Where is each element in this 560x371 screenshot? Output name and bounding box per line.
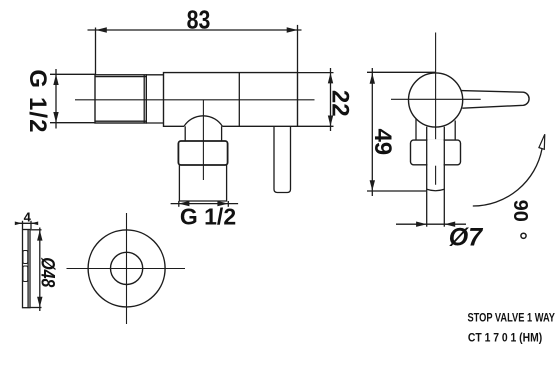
neck top edge xyxy=(146,74,163,76)
escutcheon nut xyxy=(411,140,461,165)
dimension 49 bottom extension line xyxy=(367,190,426,192)
flange clip upper xyxy=(23,251,28,264)
nut hidden area mask xyxy=(427,139,443,166)
svg-text:STOP VALVE 1 WAY: STOP VALVE 1 WAY xyxy=(467,312,555,326)
svg-text:CT 1 7 0 1 (HM): CT 1 7 0 1 (HM) xyxy=(468,332,542,345)
branch lower section xyxy=(179,165,226,201)
valve inlet threaded end body xyxy=(95,75,146,123)
svg-text:Ø48: Ø48 xyxy=(37,257,58,287)
rotation arc open arrowhead xyxy=(539,134,545,149)
dimension diameter 48 line xyxy=(39,228,41,312)
branch dome arc xyxy=(184,116,222,127)
svg-text:83: 83 xyxy=(187,5,211,35)
dimension 49 top extension line xyxy=(367,71,436,73)
thread minor line bottom xyxy=(95,120,146,122)
thread minor line top xyxy=(95,76,146,78)
G 1/2 left dim top extension line xyxy=(50,73,95,75)
right view horizontal centerline xyxy=(391,98,481,100)
svg-text:90: 90 xyxy=(509,200,531,222)
flange vertical centerline xyxy=(126,213,128,324)
dimension 4 left extension line xyxy=(22,221,24,229)
svg-text:22: 22 xyxy=(327,90,354,117)
flange front view outer circle xyxy=(88,230,165,307)
G 1/2 left dim line xyxy=(55,69,57,129)
dimension 49 line xyxy=(371,68,373,196)
flange plate side view xyxy=(23,230,31,308)
branch G 1/2 left arrow xyxy=(179,201,190,206)
branch G 1/2 dim line xyxy=(171,203,239,205)
dimension 4 right extension line xyxy=(30,221,32,229)
body horizontal centerline xyxy=(75,99,315,101)
tube right line xyxy=(443,127,445,227)
dimension 83 right extension line xyxy=(297,25,299,73)
dimension diameter 7 line xyxy=(396,223,466,225)
svg-text:49: 49 xyxy=(369,128,396,155)
tube left line xyxy=(426,127,428,227)
dimension 4 line xyxy=(15,222,38,224)
flange horizontal centerline xyxy=(67,268,186,270)
branch G 1/2 right arrow xyxy=(217,201,228,206)
dimension 22 top arrow xyxy=(328,73,333,84)
branch G 1/2 right extension line xyxy=(227,201,229,207)
dimension 22 bottom extension line xyxy=(298,125,334,127)
neck bottom edge xyxy=(146,122,163,124)
branch G 1/2 left extension line xyxy=(178,201,180,207)
dimension diameter 48 bottom extension line xyxy=(31,307,42,309)
dimension diameter 48 top extension line xyxy=(31,229,42,231)
dimension diameter 48 top arrow xyxy=(37,230,42,241)
handle knob circle xyxy=(409,73,463,127)
dimension 22 top extension line xyxy=(298,72,334,74)
thread relief line xyxy=(143,75,145,123)
dimension 49 bottom arrow xyxy=(370,180,375,191)
outlet pin xyxy=(274,126,291,192)
svg-text:G 1/2: G 1/2 xyxy=(180,203,236,229)
handle lever xyxy=(461,91,530,109)
dimension 4 left arrow xyxy=(15,222,22,226)
right view vertical centerline xyxy=(435,33,437,185)
flange front view inner circle xyxy=(111,252,143,284)
tube bottom joint arc xyxy=(427,189,445,190)
branch neck right line xyxy=(221,126,223,141)
dimension 49 top arrow xyxy=(370,73,375,84)
dimension 83 line xyxy=(88,29,302,31)
flange plate inner line xyxy=(27,230,29,308)
dimension diameter 7 right arrow xyxy=(444,222,455,227)
degree symbol xyxy=(521,233,526,238)
branch threaded band xyxy=(178,141,227,165)
G 1/2 left dim bottom arrow xyxy=(53,112,58,123)
branch neck left line xyxy=(184,126,186,141)
G 1/2 left dim bottom extension line xyxy=(50,122,95,124)
dimension 22 bottom arrow xyxy=(328,116,333,127)
svg-text:Ø7: Ø7 xyxy=(449,223,483,251)
G 1/2 left dim top arrow xyxy=(53,74,58,85)
dimension diameter 7 left arrow xyxy=(416,222,427,227)
svg-text:G 1/2: G 1/2 xyxy=(24,69,51,133)
rotation 90 arc xyxy=(473,149,542,206)
dimension 83 left extension line xyxy=(95,28,97,75)
dimension diameter 48 bottom arrow xyxy=(37,297,42,308)
dimension 83 left arrow xyxy=(96,27,107,32)
flange clip lower xyxy=(23,266,28,282)
dimension 83 right arrow xyxy=(287,27,298,32)
body internal division line xyxy=(238,73,240,127)
cap right line xyxy=(454,121,456,141)
branch vertical centerline xyxy=(202,100,204,180)
cap left line xyxy=(415,119,417,141)
valve main body outline xyxy=(164,73,298,127)
dimension 4 right arrow xyxy=(31,222,38,226)
dimension 22 line xyxy=(330,68,332,131)
